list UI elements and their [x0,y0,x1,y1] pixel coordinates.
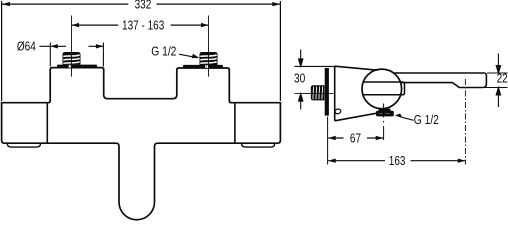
body outer rectangle front view [2,103,281,220]
dimension 22 bottom arrow [496,88,500,108]
spout top and right end outline [394,73,486,88]
dimension 67 line [328,137,383,139]
left handle seam [46,103,48,142]
right handle seam [234,103,236,142]
dimension 30 bottom arrow [299,94,303,110]
dimension 137-163 line [72,24,209,26]
dimension 332 left arrow [2,2,10,6]
dimension 22 extension bottom [480,87,508,89]
outlet flange cap [379,109,391,112]
dimension d64 right arrow [96,44,104,48]
G 1/2 leader front [179,54,194,57]
G 1/2 leader arrow front [192,54,200,58]
left handle lip [7,144,40,148]
screw hole ellipse [335,108,342,114]
dimension 30 extension top [295,65,336,67]
nipple centerline [295,93,334,95]
wall plate [325,68,329,116]
dimension 332 line [2,3,280,5]
dimension 332 right arrow [272,2,280,6]
nipple thread hatching [313,87,323,100]
left thread hatching [63,55,79,63]
left inlet flange texture [69,65,71,68]
dimension 332 extension line right [279,1,281,101]
svg-text:30: 30 [294,71,306,85]
dimension d64 extension line left [49,43,51,67]
svg-text:Ø64: Ø64 [17,39,36,54]
dimension 163 line [328,160,465,162]
dimension 22 extension top [487,72,508,74]
outlet thread block [376,111,394,117]
outlet thread texture [379,113,391,115]
dimension d64 left arrow [50,44,58,48]
right inlet flange [183,65,223,68]
body bottom diagonal [335,113,376,121]
body top outline [335,66,378,70]
svg-text:137 - 163: 137 - 163 [122,18,164,33]
dimension d64 leader and line [39,45,103,47]
right fitting centerline [208,16,210,77]
dimension 332 extension line left [1,1,3,101]
right inlet thread G1/2 [200,52,218,65]
dimension 137-163 right arrow [201,23,209,27]
inlet nipple side [311,85,325,100]
svg-text:22: 22 [497,71,508,86]
aerator centerline dash-dot [464,79,466,165]
dimension 30 top arrow [299,50,303,67]
left inlet flange [57,65,97,68]
right handle lip [242,144,275,148]
dimension 67 right arrow [376,136,384,140]
svg-text:67: 67 [350,131,361,146]
dimension 163 left arrow [328,159,336,163]
outlet centerline dash-dot [383,104,385,141]
left inlet thread G1/2 [63,52,81,65]
left fitting centerline [71,16,73,77]
lever band upper chord [363,82,405,95]
svg-text:332: 332 [135,0,152,12]
body back edge [334,66,336,121]
dimension 163 right arrow [458,159,466,163]
cartridge circle [362,69,402,109]
wall face extension line [327,117,329,165]
body outline front view [2,68,281,103]
G 1/2 leader side [401,117,414,120]
svg-text:G 1/2: G 1/2 [414,113,439,127]
dimension d64 extension line right [102,43,104,67]
dimension 67 left arrow [328,136,336,140]
dimension 137-163 left arrow [72,23,80,27]
G 1/2 leader arrow side [395,114,403,118]
svg-text:163: 163 [389,154,406,169]
right thread hatching [200,55,216,63]
right inlet flange texture [206,65,208,68]
dimension 22 top arrow [496,54,500,74]
svg-text:G 1/2: G 1/2 [151,44,176,58]
